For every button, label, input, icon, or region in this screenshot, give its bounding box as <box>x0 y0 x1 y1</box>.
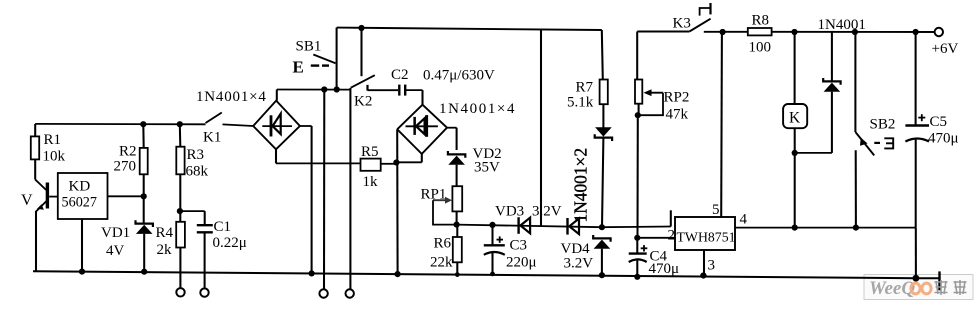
svg-text:1k: 1k <box>363 174 379 190</box>
svg-text:470μ: 470μ <box>928 131 959 147</box>
svg-text:2: 2 <box>668 228 676 244</box>
svg-text:WeeQ: WeeQ <box>869 278 915 299</box>
svg-text:1N4001×2: 1N4001×2 <box>571 148 591 223</box>
svg-text:KD: KD <box>69 179 91 195</box>
svg-text:2k: 2k <box>157 242 173 258</box>
svg-text:R3: R3 <box>187 147 205 163</box>
svg-text:1N4001×4: 1N4001×4 <box>196 89 267 105</box>
svg-text:SB2: SB2 <box>870 117 896 133</box>
svg-text:0.47μ/630V: 0.47μ/630V <box>423 68 495 84</box>
svg-text:100: 100 <box>749 40 772 56</box>
svg-text:V: V <box>21 192 33 209</box>
svg-text:0.22μ: 0.22μ <box>213 235 247 251</box>
svg-text:R8: R8 <box>752 13 770 29</box>
svg-text:C3: C3 <box>510 238 528 254</box>
svg-text:R4: R4 <box>156 225 174 241</box>
svg-text:TWH8751: TWH8751 <box>677 230 736 245</box>
svg-text:22k: 22k <box>430 255 453 271</box>
svg-text:VD3: VD3 <box>495 204 524 220</box>
svg-text:3.2V: 3.2V <box>532 204 562 220</box>
svg-text:VD1: VD1 <box>101 225 130 241</box>
svg-text:35V: 35V <box>474 160 500 176</box>
svg-text:+6V: +6V <box>932 41 959 57</box>
svg-text:1N4001: 1N4001 <box>818 17 866 33</box>
svg-text:K: K <box>789 110 801 127</box>
svg-text:R5: R5 <box>361 144 379 160</box>
svg-text:K1: K1 <box>203 130 221 146</box>
svg-text:K3: K3 <box>673 16 691 32</box>
svg-text:56027: 56027 <box>62 195 97 211</box>
svg-text:SB1: SB1 <box>296 39 322 55</box>
svg-text:C2: C2 <box>391 67 409 83</box>
svg-text:K2: K2 <box>354 94 372 110</box>
svg-text:R2: R2 <box>119 144 137 160</box>
svg-text:470μ: 470μ <box>649 261 680 277</box>
svg-text:220μ: 220μ <box>506 255 537 271</box>
svg-text:68k: 68k <box>186 164 209 180</box>
svg-text:5.1k: 5.1k <box>567 95 594 111</box>
svg-text:4V: 4V <box>106 243 125 259</box>
svg-text:R7: R7 <box>576 80 594 96</box>
svg-text:5: 5 <box>712 202 720 218</box>
svg-text:4: 4 <box>740 212 748 228</box>
svg-text:47k: 47k <box>666 107 689 123</box>
svg-text:3.2V: 3.2V <box>564 256 594 272</box>
svg-text:E: E <box>293 58 304 77</box>
svg-text:C5: C5 <box>930 114 948 130</box>
svg-text:270: 270 <box>114 159 137 175</box>
svg-text:C1: C1 <box>214 219 232 235</box>
svg-text:R1: R1 <box>44 132 62 148</box>
svg-text:RP2: RP2 <box>664 90 690 106</box>
svg-text:3: 3 <box>708 258 716 274</box>
svg-text:R6: R6 <box>434 236 452 252</box>
svg-text:10k: 10k <box>43 149 66 165</box>
svg-text:1N4001×4: 1N4001×4 <box>439 101 516 117</box>
